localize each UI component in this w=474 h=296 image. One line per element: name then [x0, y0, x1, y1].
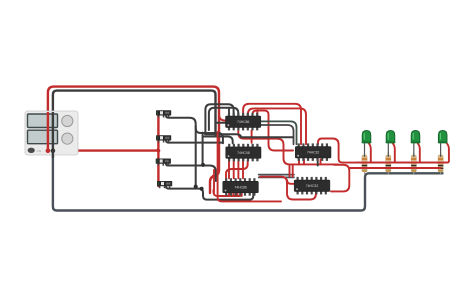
wire: red bus overlay across resistors: [352, 163, 447, 168]
wire: red branch into IC1 pin1 area: [219, 114, 228, 127]
wire: red lower LED line RL2: [349, 167, 440, 169]
wire: LED anode drops to red bus: [369, 144, 449, 163]
svg-text:74HC86: 74HC86: [234, 186, 247, 190]
wire: red IC1 pin vertical to IC2 pin: [251, 130, 253, 142]
resistor R1: [362, 152, 367, 174]
wire: black stub into IC1 left: [216, 122, 226, 124]
wire: black lead over supply to - terminal: [52, 112, 54, 158]
LED D1: [362, 130, 372, 157]
wire: gray pair IC4 to IC5: [259, 175, 294, 178]
wire: black power loop from supply - terminal to IC area: [53, 91, 216, 151]
junction dot: red at switch column: [157, 149, 161, 153]
wire: red loop IC4 right under IC5: [260, 177, 316, 200]
wire: black bundle vertical 1: [195, 126, 197, 187]
IC U4 74HC86: [223, 178, 259, 196]
resistor R3: [411, 152, 416, 174]
wire: black stub IC1 top pin: [228, 109, 230, 116]
wire: red IC1 bottom pin under IC3 to bus corner: [238, 130, 338, 164]
wire: black nested loop IC1 to bundle 2: [209, 108, 238, 130]
wire: switch SW1 output: [166, 116, 223, 144]
wire: red stub IC1 top pin to arc: [256, 111, 258, 116]
resistor R4: [438, 152, 443, 174]
wire: dark wire IC1 right to IC3 top (1): [261, 121, 297, 144]
slide switch SW3: [156, 159, 171, 166]
junction dots: [201, 163, 205, 167]
IC U3 74HC32: [295, 143, 331, 161]
svg-text:ON: ON: [37, 149, 42, 153]
wire: red supply to switch column: [48, 113, 158, 186]
wire: red arc IC1 pin to IC3 left pin: [253, 111, 294, 151]
wire: red stubs to IC5 top pins: [290, 164, 293, 176]
wire: red U around IC5 right: [331, 165, 349, 192]
wire: red under IC4 pin loops: [214, 190, 242, 196]
wire: dark wire IC1 right to IC3 top (2): [261, 125, 294, 144]
LED D2: [386, 130, 396, 157]
svg-text:74HC32: 74HC32: [306, 184, 319, 188]
wire: red branch to IC5 left: [287, 180, 295, 184]
wire: red lead over supply to + terminal: [47, 112, 49, 151]
wire: red arc IC1 to IC3 (2): [248, 108, 306, 144]
wire: switch SW4 output: [166, 186, 253, 200]
wire: black loop IC1 top-left to bundle: [205, 104, 233, 132]
slide switch SW1: [156, 110, 171, 117]
wire: red loop IC2 bottom right to IC4 top: [226, 161, 248, 179]
wire: switch SW2 output: [166, 140, 223, 142]
wire: black thick bundle continuation to IC3: [205, 134, 293, 137]
wire: red arc IC1 to IC3 (1): [243, 104, 301, 145]
svg-text:74HC86: 74HC86: [237, 120, 250, 124]
LED D3: [411, 130, 421, 157]
svg-text:74HC08: 74HC08: [237, 151, 250, 155]
wire: red vertical long through middle: [218, 132, 281, 201]
power supply P1: [25, 111, 78, 158]
wire: red power loop from supply + terminal to IC area: [48, 87, 219, 193]
svg-text:74HC32: 74HC32: [307, 151, 320, 155]
wire: ground bottom run and resistor bus: [53, 151, 443, 211]
slide switch SW2: [156, 135, 171, 142]
slide switch SW4: [157, 181, 172, 188]
wire: red arc IC3 pin over right edge to LED bus RL1: [318, 139, 447, 163]
IC U1 74HC86: [226, 113, 261, 130]
wire: red verticals IC2 to IC4 pins: [229, 159, 243, 179]
IC U2 74HC08: [226, 144, 261, 161]
resistor R2: [386, 152, 391, 174]
IC U5 74HC32: [294, 177, 330, 195]
wire: red vertical mid short: [213, 170, 215, 193]
wire: switch SW3 output: [166, 164, 216, 181]
wire: black stub IC3 bottom pin: [317, 160, 319, 166]
wire: red stubs IC3 bottom pins to under-line: [299, 160, 321, 165]
LED D4: [438, 130, 448, 157]
wire: black bundle vertical 2 with horizontal to IC2: [203, 133, 233, 165]
